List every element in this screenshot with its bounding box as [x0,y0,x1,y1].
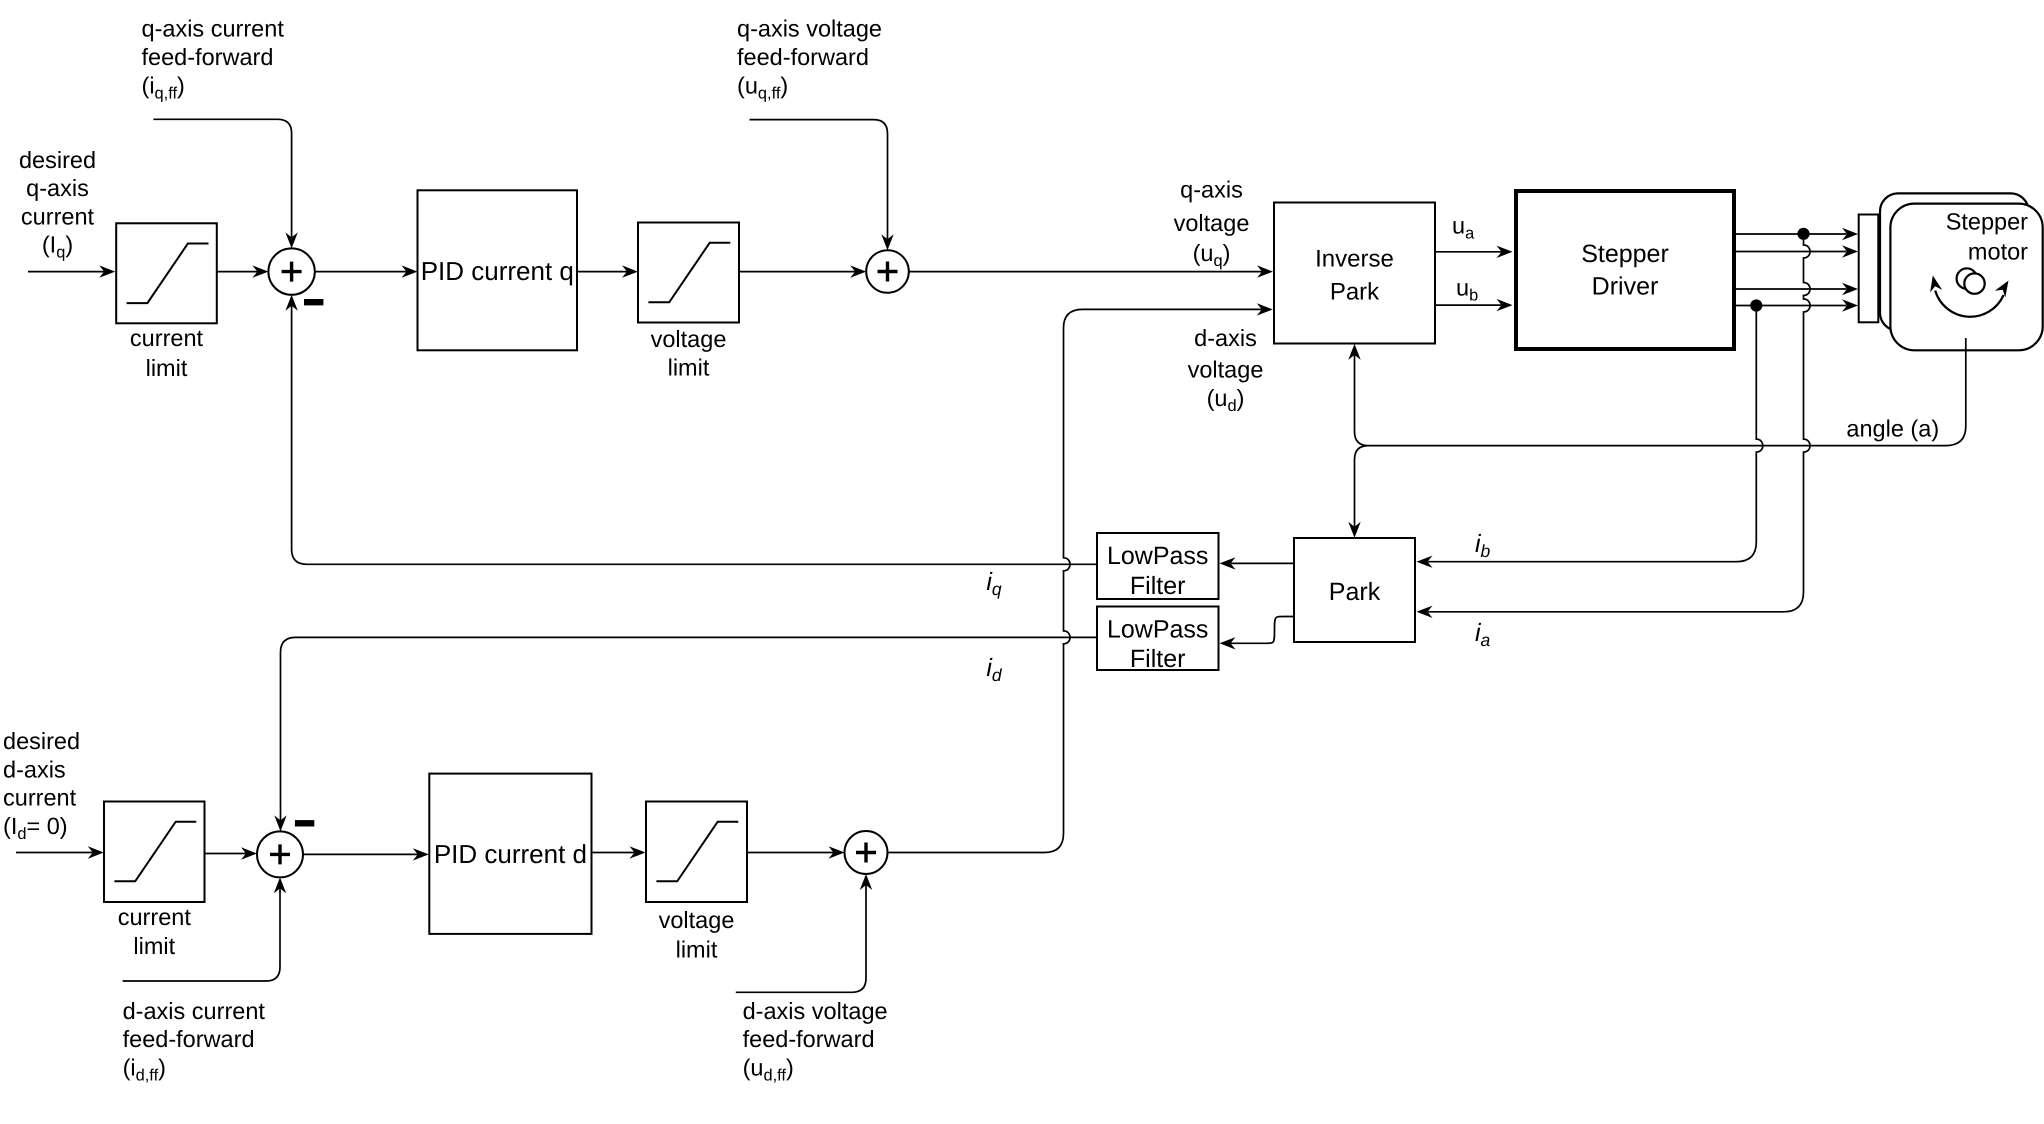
svg-text:Park: Park [1330,279,1380,306]
svg-text:voltage: voltage [651,326,727,352]
svg-text:desired: desired [19,147,96,173]
block: stepper motor body [1890,204,2042,351]
summing junction 4 (d voltage sum) [845,831,888,874]
svg-text:Driver: Driver [1592,273,1659,301]
wire: stepper phase line 4 [1736,305,1847,307]
minus sign at summing junction 3 [295,820,314,826]
block: PID current q [418,190,578,350]
icon: rotation arc [1935,291,2003,317]
svg-text:PID current q: PID current q [421,256,574,286]
wire: id feedback from LowPass Filter to summing junction 3 [281,637,1098,820]
svg-text:Filter: Filter [1130,572,1186,600]
wire: ia current sense from phase line 1 to Park [1428,240,1810,612]
wire: ub from Inverse Park to Stepper Driver [1435,304,1502,306]
wire: stepper phase line 1 [1736,233,1847,235]
svg-text:q-axis: q-axis [26,175,89,201]
svg-text:Inverse: Inverse [1315,245,1394,272]
icon: motor shaft front circle [1964,273,1984,293]
svg-text:d-axis: d-axis [1194,325,1257,351]
junction dot on phase line 4 [1750,299,1762,311]
wire: ua from Inverse Park to Stepper Driver [1435,251,1502,253]
svg-text:limit: limit [146,355,188,381]
svg-text:PID current d: PID current d [434,839,587,869]
svg-text:limit: limit [133,933,175,959]
svg-text:Filter: Filter [1130,645,1186,673]
block: Stepper Driver [1516,191,1734,349]
minus sign at summing junction 1 [304,299,323,305]
svg-text:current: current [118,904,192,930]
svg-text:Stepper: Stepper [1581,240,1669,268]
block: voltage limit (q-axis) with saturation icon [638,223,739,323]
wire: Park to LowPass Filter (iq) [1231,562,1294,564]
wire: q-axis current feed-forward into summing junction 1 [153,119,291,237]
svg-text:feed-forward: feed-forward [737,44,869,70]
wire: desired d-axis current input [16,852,93,854]
svg-text:voltage: voltage [1188,357,1264,383]
block: Inverse Park [1274,203,1435,344]
wire: d-axis current feed-forward into summing junction 3 [123,888,280,981]
wire: PID current d to voltage limit d [592,852,635,854]
block: Park [1294,538,1415,642]
svg-text:motor: motor [1968,238,2028,264]
block: stepper motor back plate [1880,193,2029,330]
svg-text:feed-forward: feed-forward [743,1026,875,1052]
svg-text:q-axis current: q-axis current [142,16,285,42]
svg-text:q-axis: q-axis [1180,177,1243,203]
svg-text:d-axis: d-axis [3,756,66,782]
wire: angle branch down into Park [1355,446,1369,527]
svg-text:Park: Park [1329,578,1381,606]
svg-text:d-axis current: d-axis current [123,998,266,1024]
block: LowPass Filter (iq) [1097,533,1219,599]
wire: stepper phase line 2 [1736,251,1847,253]
svg-text:voltage: voltage [659,907,735,933]
block: motor terminal connector [1859,215,1879,323]
svg-text:d-axis voltage: d-axis voltage [743,998,888,1024]
wire: voltage limit d to summing junction 4 [747,852,834,854]
block: LowPass Filter (id) [1097,607,1219,671]
wire: summing junction 3 to PID current d [303,853,418,855]
wire: voltage limit q to summing junction 2 [739,271,855,273]
wire: d-axis voltage ud from summing junction 4 to Inverse Park [888,309,1262,852]
svg-text:LowPass: LowPass [1107,542,1208,570]
summing junction 3 (d current error) [257,831,303,877]
wire: summing junction 1 to PID current q [315,271,407,273]
wire: PID current q to voltage limit [577,271,627,273]
svg-text:Stepper: Stepper [1946,209,2028,235]
wire: Park to LowPass Filter (id) [1231,617,1295,644]
block: PID current d [429,774,591,934]
wire: angle (a) from motor to Inverse Park [1355,338,1966,446]
svg-text:angle (a): angle (a) [1846,415,1939,441]
svg-text:limit: limit [676,937,718,963]
block: current limit (q-axis) with saturation icon [116,223,217,323]
svg-text:limit: limit [668,355,710,381]
svg-text:(ud): (ud) [1207,385,1245,415]
wire: stepper phase line 3 [1736,288,1847,290]
wire: current limit d to summing junction 3 [205,853,247,855]
svg-text:(Id= 0): (Id= 0) [3,813,68,843]
wire: q-axis voltage feed-forward into summing junction 2 [750,120,888,240]
svg-text:desired: desired [3,728,80,754]
block: voltage limit (d-axis) with saturation icon [646,802,747,903]
svg-text:feed-forward: feed-forward [123,1026,255,1052]
wire: d-axis voltage feed-forward into summing junction 4 [736,885,866,992]
wire: q-axis voltage uq to Inverse Park [909,271,1262,273]
summing junction 1 (q current error) [268,248,314,294]
junction dot on phase line 1 [1797,228,1809,240]
wire: iq feedback from LowPass Filter to summing junction 1 [292,306,1097,565]
svg-text:q-axis voltage: q-axis voltage [737,16,882,42]
svg-text:voltage: voltage [1174,210,1250,236]
svg-text:current: current [130,325,204,351]
icon: motor shaft back circle [1957,268,1977,288]
svg-text:current: current [21,203,95,229]
wire: ib current sense from phase line 4 to Park [1428,312,1763,562]
wire: current limit q to summing junction 1 [217,271,258,273]
svg-text:feed-forward: feed-forward [142,44,274,70]
svg-text:current: current [3,785,77,811]
svg-text:(uq): (uq) [1193,240,1231,270]
svg-text:LowPass: LowPass [1107,616,1208,644]
wire: desired q-axis current input [28,271,105,273]
block: current limit (d-axis) with saturation icon [104,802,205,903]
summing junction 2 (q voltage sum) [866,250,909,293]
